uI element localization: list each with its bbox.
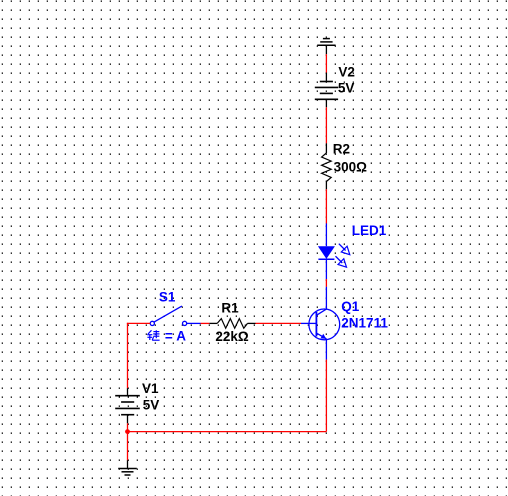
label S1 key legend (key = A)	[147, 330, 159, 340]
svg-text:R2: R2	[333, 141, 350, 156]
svg-text:5V: 5V	[143, 398, 160, 413]
svg-text:2N1711: 2N1711	[341, 316, 388, 331]
voltage source V2	[315, 73, 338, 108]
voltage source V1	[115, 388, 140, 423]
svg-text:A: A	[176, 328, 186, 343]
wire S1-to-corner	[127, 322, 150, 324]
svg-text:LED1: LED1	[352, 223, 387, 238]
switch S1	[150, 306, 200, 325]
wire V1-to-ground	[127, 423, 129, 460]
wire R1-to-Q1 base	[256, 322, 302, 324]
wire emitter vertical	[325, 360, 327, 432]
svg-text:300Ω: 300Ω	[334, 160, 368, 175]
wire R2-to-LED1	[325, 189, 327, 223]
ground GND top	[317, 39, 335, 55]
wire corner-to-V1	[127, 323, 129, 389]
svg-text:Q1: Q1	[341, 299, 360, 314]
svg-text:V1: V1	[142, 381, 159, 396]
svg-text:R1: R1	[221, 300, 239, 315]
LED LED1	[318, 223, 350, 279]
wire ground-to-V2	[325, 54, 327, 73]
transistor Q1 2N1711 NPN	[301, 287, 340, 360]
svg-text:V2: V2	[338, 65, 355, 80]
wire V2-to-R2	[325, 107, 327, 143]
svg-text:=: =	[165, 328, 173, 343]
wire S1-to-R1	[201, 322, 210, 324]
ground GND bottom	[118, 460, 137, 475]
wire junction-to-emitter horizontal	[128, 431, 327, 433]
node junction V1-emitter	[125, 429, 130, 434]
resistor R2	[322, 143, 332, 189]
svg-text:5V: 5V	[338, 80, 355, 95]
svg-text:22kΩ: 22kΩ	[215, 329, 249, 344]
resistor R1	[209, 319, 255, 329]
svg-text:S1: S1	[159, 290, 176, 305]
wire LED1-to-Q1	[325, 279, 327, 287]
